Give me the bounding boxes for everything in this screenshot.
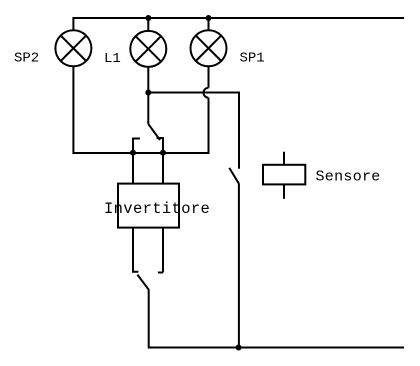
wire: box bottom left with contact tick <box>133 228 138 272</box>
wire: pole down and bottom rail <box>149 290 404 348</box>
wire: box bottom right <box>162 228 164 273</box>
wire: top rail to L1 lamp <box>147 18 149 31</box>
svg-text:Invertitore: Invertitore <box>104 200 210 218</box>
svg-text:Sensore: Sensore <box>316 168 381 185</box>
contact: lower right tick <box>158 272 163 274</box>
wire: hop over horizontal wire <box>204 88 209 98</box>
svg-text:SP1: SP1 <box>240 51 265 67</box>
wire: L1 lamp down through junction to switch pivot <box>147 67 149 124</box>
svg-text:L1: L1 <box>104 51 121 67</box>
node: junction bottom rail / right branch <box>236 345 242 351</box>
wire: left contact into box <box>132 153 134 185</box>
switch SPDT lower blade <box>137 275 148 290</box>
switch blade S2 (right branch) <box>229 168 239 184</box>
wire: top rail to SP1 lamp <box>208 18 210 30</box>
wire: below switch S2 down to bottom rail <box>238 184 240 348</box>
node: junction top rail / L1 <box>145 15 151 21</box>
lamp SP2 <box>55 30 91 66</box>
wire: SP2 lamp down, along y=153, up to hop <box>73 66 208 153</box>
node: junction right contact / wire <box>160 150 166 156</box>
wire: junction to right branch <box>148 93 239 169</box>
svg-text:SP2: SP2 <box>14 50 39 66</box>
lamp SP1 <box>191 30 227 66</box>
wire: right contact into box <box>162 153 164 185</box>
wire: SP1 lamp down to hop top <box>208 66 210 87</box>
switch SPDT upper blade <box>148 124 160 140</box>
node: junction L1 branch / horizontal wire <box>145 90 151 96</box>
lamp L1 <box>130 31 166 67</box>
contact: upper right throw <box>157 138 164 153</box>
contact: upper left throw <box>133 139 140 153</box>
node: junction left contact / wire <box>130 150 136 156</box>
node: junction top rail / SP1 <box>206 15 212 21</box>
wire: top supply rail <box>73 18 404 31</box>
relay coil Sensore <box>263 152 305 199</box>
box Invertitore <box>118 184 179 228</box>
